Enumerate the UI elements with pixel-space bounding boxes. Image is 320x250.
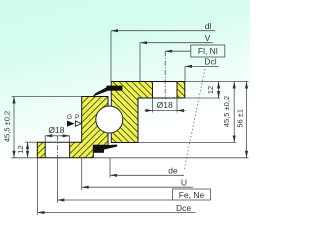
Dcl arrow [185, 65, 192, 68]
right Ø18 arrows (outside, pointing in) [146, 109, 153, 112]
svg-text:Dcl: Dcl [204, 57, 216, 67]
Dce arrow [38, 211, 45, 214]
outer ring (left, flanged) [37, 97, 108, 158]
left 12 dim line [27, 142, 29, 158]
svg-text:Fe, Ne: Fe, Ne [179, 190, 205, 200]
Fe,Ne arrow [57, 198, 64, 201]
U arrow [82, 186, 89, 189]
dl arrow [111, 29, 118, 32]
arrows [12, 29, 248, 214]
right 12 arrows [217, 82, 220, 89]
U [81, 158, 83, 190]
svg-text:U: U [181, 178, 187, 188]
right ext line y=98 [185, 97, 220, 99]
svg-text:12: 12 [16, 145, 25, 153]
top seal (black wedge) [107, 86, 123, 91]
ext line outer bottom y=157.8 [93, 157, 248, 159]
svg-text:12: 12 [206, 86, 215, 94]
svg-text:56 ±1: 56 ±1 [235, 109, 244, 128]
left 45.5 arrows [12, 97, 15, 104]
left Ø18 ext+dim [44, 136, 46, 142]
ext line inner bottom y=142.5 [138, 142, 236, 144]
svg-text:G: G [67, 114, 72, 121]
bottom dims: de [109, 158, 111, 178]
de arrow [110, 174, 117, 177]
left 45.5 dim line [13, 97, 15, 158]
svg-text:Fl, Nl: Fl, Nl [198, 46, 218, 56]
right 56 dim line [246, 82, 248, 158]
right ext line y=81.5 [185, 81, 249, 83]
svg-text:Ø18: Ø18 [157, 100, 173, 110]
inner ring (right, raised with top hole) [111, 82, 185, 143]
grease port P arrow (open) [75, 121, 81, 126]
right 56 arrows [245, 82, 248, 89]
svg-text:de: de [168, 166, 178, 176]
svg-text:45,5 ±0,2: 45,5 ±0,2 [222, 96, 231, 127]
dotted diagonal [184, 69, 205, 170]
svg-text:dl: dl [205, 21, 212, 31]
top dim: V line [140, 42, 213, 44]
V arrow [140, 41, 147, 44]
grease port G arrow (filled) [67, 121, 75, 127]
svg-text:Dce: Dce [176, 203, 191, 213]
svg-text:V: V [205, 33, 211, 43]
left hole centerline dash-dot [56, 136, 58, 158]
left 12 arrows [26, 142, 29, 149]
svg-text:P: P [75, 114, 79, 121]
svg-text:45,5 ±0,2: 45,5 ±0,2 [3, 111, 12, 142]
inner ring bolt hole Ø18 (white slot) [153, 82, 178, 97]
Dce [37, 158, 39, 215]
right 45.5 arrows [233, 82, 236, 89]
top dim: Dcl line [185, 65, 219, 67]
Fe,Ne [57, 199, 172, 201]
bottom seal (black wedge) [93, 145, 104, 153]
Fl,Nl arrow [165, 50, 172, 53]
outer ring bolt hole Ø18 (white slot) [45, 143, 69, 157]
svg-text:Ø18: Ø18 [48, 125, 64, 135]
left Ø18 arrows (inside, pointing out) [45, 134, 52, 137]
label box Fl, Nl [191, 45, 225, 57]
left ext flange top y=142.2 [25, 141, 37, 143]
top dim: Fl,Nl line [165, 50, 191, 52]
ball [96, 106, 123, 133]
right 12 dim line [218, 82, 220, 99]
right 45.5 dim line [233, 82, 235, 143]
hole centerline (right) dash-dot [164, 51, 166, 99]
top dim: dl line [111, 30, 215, 32]
raceway gap slots (white) [109, 82, 111, 107]
right Ø18 dim [152, 98, 154, 113]
label box Fe, Ne [173, 189, 211, 200]
slewing bearing cross-section technical drawing [0, 0, 250, 250]
left ext outer top y=96.5 [12, 96, 82, 98]
